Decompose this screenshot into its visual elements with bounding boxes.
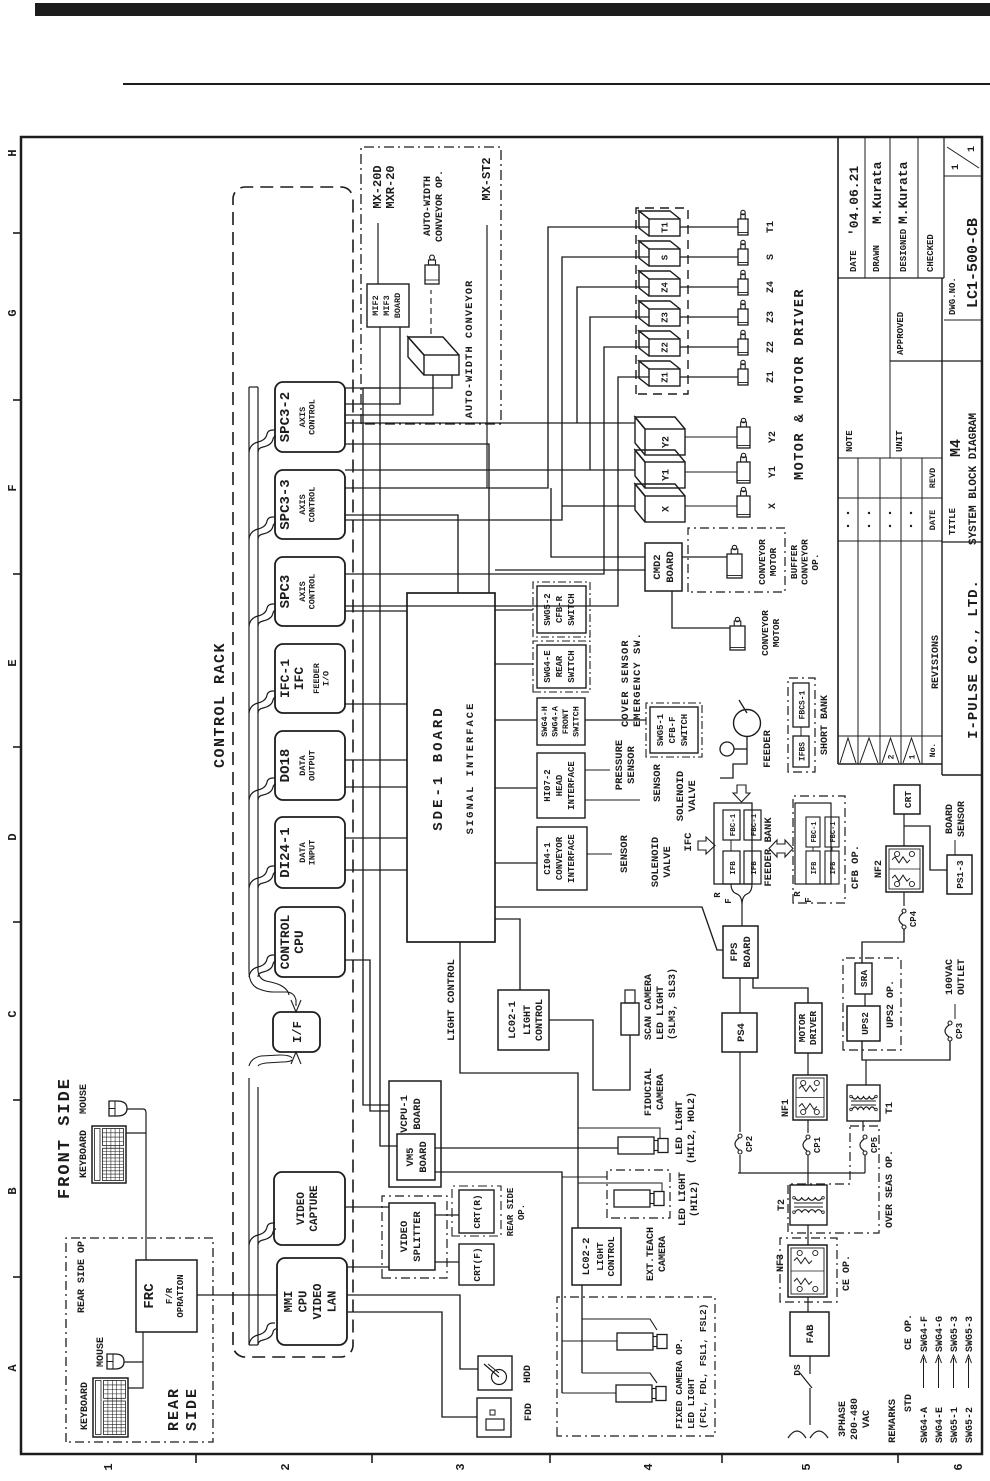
- wire DO18 to SDE-1: [345, 759, 407, 761]
- svg-text:INTERFACE: INTERFACE: [567, 834, 577, 883]
- svg-text:REAR: REAR: [555, 655, 565, 677]
- svg-text:AXIS: AXIS: [298, 407, 308, 427]
- wire SPC3-3 to SDE-1: [345, 515, 458, 593]
- wire NF2 to PS1-3: [904, 826, 947, 870]
- cfb links: [812, 847, 814, 851]
- wire FPS to motor driver: [753, 978, 808, 1003]
- svg-text:DO18: DO18: [278, 749, 294, 783]
- svg-text:CE OP.: CE OP.: [842, 1255, 853, 1291]
- svg-text:X: X: [662, 506, 673, 512]
- board DO18: [275, 731, 345, 800]
- ext teach boundary: [607, 1170, 670, 1218]
- motor Y2: [737, 427, 750, 448]
- svg-text:PS1-3: PS1-3: [955, 860, 966, 889]
- wire MMI to FDD: [347, 1312, 477, 1417]
- svg-text:1: 1: [951, 164, 962, 170]
- board VIDEO CAPTURE: [274, 1172, 345, 1245]
- svg-text:CPU: CPU: [292, 930, 307, 953]
- svg-text:FBC-1: FBC-1: [730, 813, 738, 836]
- wire UPS2 CP3 to T1: [862, 1041, 950, 1060]
- motor X: [737, 496, 750, 517]
- motor Z2: [738, 339, 748, 355]
- revision dots: [847, 525, 849, 527]
- svg-text:D: D: [6, 833, 20, 840]
- svg-text:LC02-1: LC02-1: [507, 1001, 519, 1039]
- svg-text:SENSOR: SENSOR: [652, 763, 664, 802]
- svg-text:BOARD: BOARD: [945, 804, 956, 834]
- svg-text:SWG4-A: SWG4-A: [551, 705, 561, 737]
- keyboard icon front: [92, 1126, 126, 1183]
- svg-text:SWG4-E: SWG4-E: [935, 1407, 946, 1443]
- svg-text:CONTROL: CONTROL: [308, 574, 318, 610]
- wire splitter to CRT F: [435, 1261, 459, 1263]
- camera fixed 2: [616, 1385, 652, 1402]
- svg-text:100VAC: 100VAC: [945, 959, 956, 995]
- svg-text:BOARD: BOARD: [742, 936, 754, 968]
- wire driver S to motor: [680, 256, 738, 258]
- svg-text:SWG5-1: SWG5-1: [656, 713, 666, 746]
- svg-text:OP.: OP.: [517, 1204, 527, 1220]
- wire DI24-1 to SDE-1: [345, 837, 407, 839]
- wire CP bus: [738, 1172, 865, 1174]
- svg-text:OUTPUT: OUTPUT: [308, 750, 318, 781]
- switch SWG4-E: [533, 641, 590, 692]
- wire driver T1 to motor: [680, 226, 738, 228]
- svg-text:SPC3-2: SPC3-2: [278, 392, 294, 442]
- svg-text:INPUT: INPUT: [308, 840, 318, 866]
- svg-text:VIDEO: VIDEO: [399, 1221, 411, 1253]
- svg-text:HI07-2: HI07-2: [543, 769, 553, 801]
- svg-text:REVISIONS: REVISIONS: [931, 635, 942, 689]
- 3phase arcs: [788, 1431, 806, 1438]
- svg-text:1: 1: [967, 146, 978, 152]
- svg-text:I/F: I/F: [291, 1021, 305, 1043]
- svg-text:SPC3-3: SPC3-3: [278, 479, 294, 529]
- wire CI04 stub: [587, 853, 612, 855]
- feeder bank outer: [714, 803, 752, 884]
- icon HDD: [478, 1356, 512, 1390]
- svg-text:S: S: [661, 254, 671, 260]
- wire driver Y2 to motor: [685, 436, 737, 438]
- board FRC: [136, 1260, 197, 1332]
- board CMD2: [645, 543, 682, 591]
- wire front switch to SWG5-1: [585, 719, 646, 721]
- board CRT(F): [459, 1244, 494, 1285]
- svg-text:LED LIGHT: LED LIGHT: [686, 1377, 697, 1429]
- svg-text:SWG5-3: SWG5-3: [950, 1316, 961, 1352]
- board PS4: [722, 1013, 757, 1052]
- feeder bank IFB F: [744, 851, 761, 884]
- wire driver Z3 to motor: [680, 316, 738, 318]
- svg-text:CONVEYOR: CONVEYOR: [555, 836, 565, 880]
- svg-text:SENSOR: SENSOR: [626, 745, 638, 784]
- svg-text:AXIS: AXIS: [298, 494, 308, 514]
- svg-text:UNIT: UNIT: [895, 430, 905, 452]
- svg-text:IFB: IFB: [830, 861, 838, 874]
- breaker CP5: [863, 1151, 867, 1155]
- wire video capture to splitter: [345, 1206, 389, 1208]
- svg-text:LIGHT: LIGHT: [523, 1005, 534, 1035]
- svg-text:SENSOR: SENSOR: [619, 834, 631, 873]
- svg-text:LED LIGHT: LED LIGHT: [656, 986, 667, 1040]
- svg-text:'04.06.21: '04.06.21: [847, 166, 862, 236]
- svg-text:REVD: REVD: [928, 468, 938, 488]
- grid ticks top: [13, 1276, 21, 1278]
- motor conveyor: [730, 626, 745, 650]
- wire CP4 to SRA: [862, 929, 904, 963]
- wire outlet to CP3: [954, 1004, 956, 1019]
- svg-text:CMD2: CMD2: [652, 554, 664, 579]
- board LC02-2: [572, 1228, 621, 1285]
- svg-text:Z3: Z3: [766, 311, 777, 323]
- wire SRA to UPS2: [864, 994, 866, 1006]
- wire fan X: [562, 505, 635, 507]
- svg-text:SDE-1 BOARD: SDE-1 BOARD: [431, 705, 447, 830]
- svg-text:INTERFACE: INTERFACE: [567, 761, 577, 810]
- board VIDEO SPLITTER: [389, 1203, 435, 1270]
- svg-text:BUFFER: BUFFER: [789, 545, 800, 580]
- scan artifact bar: [35, 3, 990, 16]
- svg-text:SWG5-2: SWG5-2: [543, 593, 553, 625]
- svg-text:DATE: DATE: [849, 250, 859, 272]
- svg-text:LC02-2: LC02-2: [581, 1238, 593, 1276]
- wire MMI to HDD: [347, 1295, 478, 1369]
- svg-text:Z1: Z1: [661, 372, 671, 383]
- svg-text:I-PULSE CO., LTD.: I-PULSE CO., LTD.: [966, 579, 982, 739]
- svg-text:DRIVER: DRIVER: [808, 1011, 819, 1046]
- transformer T2: [790, 1185, 827, 1225]
- wire lens tap 1: [582, 1319, 657, 1330]
- board MMI CPU VIDEO LAN: [277, 1258, 347, 1345]
- svg-text:REAR: REAR: [166, 1387, 183, 1431]
- board HI07-2: [537, 753, 585, 818]
- svg-text:REAR SIDE OP.: REAR SIDE OP.: [77, 1235, 88, 1313]
- svg-text:FDD: FDD: [524, 1403, 535, 1421]
- svg-text:REMARKS: REMARKS: [887, 1399, 899, 1443]
- svg-text:T1: T1: [661, 222, 671, 233]
- svg-text:MX-ST2: MX-ST2: [480, 157, 494, 200]
- feeder icon: [734, 710, 761, 737]
- motor driver group boundary: [636, 208, 688, 394]
- wire MIF2 to MX label: [377, 223, 379, 284]
- wire MD to NF1: [807, 1053, 809, 1075]
- svg-text:FRONT: FRONT: [561, 709, 571, 735]
- auto-width conveyor op boundary: [361, 147, 501, 424]
- svg-text:FRONT SIDE: FRONT SIDE: [56, 1077, 75, 1199]
- scan artifact line: [123, 83, 990, 85]
- wire SDE to FPS: [495, 907, 723, 950]
- svg-text:AUTO-WIDTH: AUTO-WIDTH: [423, 176, 434, 236]
- board IFC-1: [275, 644, 345, 713]
- svg-text:VIDEO: VIDEO: [311, 1283, 325, 1319]
- svg-text:PS4: PS4: [736, 1023, 748, 1042]
- cfb FBC-1 F: [825, 817, 839, 847]
- svg-text:2: 2: [888, 754, 897, 759]
- svg-text:BOARD: BOARD: [418, 1141, 430, 1173]
- board SPC3-3: [275, 470, 345, 539]
- svg-text:(HIL2, HOL2): (HIL2, HOL2): [686, 1092, 698, 1164]
- svg-text:FBC-1: FBC-1: [830, 821, 838, 842]
- svg-text:IFB: IFB: [751, 861, 759, 875]
- label sheet 1/1: [947, 147, 979, 168]
- svg-text:CAPTURE: CAPTURE: [309, 1185, 321, 1232]
- svg-text:VIDEO: VIDEO: [296, 1192, 308, 1225]
- keyboard icon rear: [93, 1378, 128, 1437]
- svg-text:Z3: Z3: [661, 312, 671, 323]
- svg-text:SWITCH: SWITCH: [680, 714, 690, 746]
- motor Z4: [738, 279, 748, 295]
- wire conveyor to long run: [363, 375, 452, 1105]
- svg-text:Y2: Y2: [768, 431, 779, 443]
- svg-text:VM5: VM5: [405, 1148, 417, 1167]
- motor Z3: [738, 309, 748, 325]
- svg-text:4: 4: [642, 1463, 656, 1470]
- svg-text:I/O: I/O: [322, 671, 332, 686]
- svg-text:Z2: Z2: [661, 342, 671, 353]
- svg-text:CFB-F: CFB-F: [668, 716, 678, 743]
- board SPC3-2: [275, 382, 345, 452]
- arrow IFC down: [698, 837, 715, 854]
- board UPS2: [847, 1006, 880, 1041]
- svg-text:R: R: [713, 892, 723, 898]
- ups2 op boundary: [843, 958, 901, 1050]
- driver box S: [649, 249, 680, 266]
- wire MIF2 long run to VM5: [345, 388, 397, 1146]
- wire fan Z2: [345, 347, 649, 574]
- fixed camera op boundary: [557, 1297, 715, 1436]
- wire ext led to trunk: [578, 1183, 662, 1191]
- svg-text:VAC: VAC: [862, 1410, 873, 1428]
- wire PS4 to CP2: [739, 1052, 741, 1132]
- svg-text:X: X: [768, 503, 779, 509]
- feeder bank FBC-1 R: [723, 810, 740, 840]
- board IFBS: [793, 736, 809, 767]
- wire driver X to motor: [685, 505, 737, 507]
- svg-text:F: F: [724, 898, 734, 903]
- svg-text:CONTROL RACK: CONTROL RACK: [212, 642, 229, 768]
- wire T2 to NF3: [807, 1225, 809, 1245]
- svg-text:2: 2: [279, 1463, 293, 1470]
- wire LC02-1 to scan camera led: [549, 1020, 630, 1090]
- svg-text:IFB: IFB: [811, 861, 819, 874]
- svg-text:F/R: F/R: [165, 1287, 175, 1304]
- svg-text:NF1: NF1: [781, 1099, 792, 1117]
- svg-text:IFBS: IFBS: [799, 742, 808, 761]
- svg-text:DS: DS: [792, 1364, 803, 1376]
- wire bus to T2: [807, 1173, 809, 1185]
- board CRT(R): [459, 1190, 494, 1233]
- short bank boundary: [788, 678, 815, 772]
- svg-text:LED LIGHT: LED LIGHT: [678, 1172, 689, 1226]
- wire NF1 to CP1: [807, 1120, 809, 1133]
- revision triangles: [840, 738, 856, 763]
- svg-text:OP.: OP.: [810, 553, 821, 570]
- svg-text:MOUSE: MOUSE: [96, 1337, 107, 1367]
- svg-text:DATA: DATA: [298, 754, 308, 775]
- svg-text:SPLITTER: SPLITTER: [412, 1211, 424, 1262]
- wire CPU to VCPU-1: [345, 960, 389, 1111]
- svg-text:MOTOR & MOTOR DRIVER: MOTOR & MOTOR DRIVER: [793, 288, 808, 480]
- motor S: [738, 249, 748, 265]
- wire fiducial led to trunk: [578, 1128, 660, 1139]
- wire FRC to MMI: [197, 1294, 277, 1296]
- board SDE-1: [407, 593, 495, 942]
- buffer conveyor boundary: [688, 528, 785, 592]
- feeder bank FBC-1 F: [744, 810, 761, 840]
- svg-text:CONVEYOR: CONVEYOR: [800, 539, 811, 585]
- svg-text:SWG4-F: SWG4-F: [920, 1316, 931, 1352]
- svg-text:KEYBOARD: KEYBOARD: [80, 1382, 91, 1430]
- breaker CP3: [948, 1037, 952, 1041]
- svg-text:CAMERA: CAMERA: [656, 1074, 667, 1110]
- camera fixed 1: [617, 1333, 653, 1350]
- svg-text:T2: T2: [777, 1199, 788, 1211]
- svg-text:LC1-500-CB: LC1-500-CB: [965, 218, 982, 308]
- svg-text:BOARD: BOARD: [393, 293, 403, 319]
- wire T1 to CP5: [862, 1121, 864, 1131]
- control rack boundary: [233, 187, 353, 1357]
- svg-text:(SLM3, SLS3): (SLM3, SLS3): [667, 968, 679, 1040]
- svg-text:CRT(R): CRT(R): [472, 1194, 483, 1228]
- label MX-ST2: [486, 225, 488, 488]
- conveyor 3d box: [424, 355, 459, 375]
- svg-text:SENSOR: SENSOR: [957, 801, 968, 837]
- svg-text:MOUSE: MOUSE: [79, 1084, 90, 1114]
- wire SDE to front switch: [495, 719, 537, 721]
- svg-text:DESIGNED: DESIGNED: [899, 228, 909, 272]
- svg-text:CPU: CPU: [297, 1291, 311, 1313]
- svg-text:IFC: IFC: [683, 832, 695, 852]
- svg-text:CI04-1: CI04-1: [543, 842, 553, 875]
- wire LC02-2 to fixed lens feed: [581, 1285, 583, 1373]
- ce op boundary: [780, 1238, 837, 1302]
- wire NF3 to FAB: [807, 1297, 809, 1312]
- cfb IFB F: [825, 851, 839, 884]
- title block: [942, 774, 982, 776]
- wire splitter to CRT R: [435, 1214, 459, 1216]
- svg-text:SWG5-1: SWG5-1: [950, 1407, 961, 1443]
- rear side op boundary: [66, 1238, 213, 1442]
- cfb op boundary: [793, 796, 845, 903]
- svg-text:CP4: CP4: [909, 910, 919, 927]
- board FAB: [790, 1312, 829, 1356]
- svg-text:MOTOR: MOTOR: [771, 618, 782, 647]
- svg-text:Z4: Z4: [661, 282, 671, 293]
- svg-text:SOLENOID: SOLENOID: [675, 771, 687, 821]
- svg-text:UPS2: UPS2: [860, 1012, 871, 1035]
- svg-text:DRAWN: DRAWN: [872, 245, 882, 272]
- bus wire lower: [248, 1078, 250, 1345]
- wire SPC3-2 to MIF2: [345, 327, 400, 404]
- svg-text:CE OP.: CE OP.: [904, 1314, 915, 1350]
- svg-text:NF2: NF2: [874, 860, 885, 878]
- svg-text:SIDE: SIDE: [184, 1387, 201, 1431]
- svg-text:Z2: Z2: [766, 341, 777, 353]
- svg-text:FEEDER: FEEDER: [762, 729, 774, 768]
- svg-text:IFC-1: IFC-1: [278, 659, 293, 698]
- svg-text:DI24-1: DI24-1: [278, 827, 294, 877]
- filter NF2: [886, 846, 923, 892]
- driver box Z2: [649, 339, 680, 356]
- svg-text:EMERGENCY SW.: EMERGENCY SW.: [632, 632, 644, 727]
- wire fan Z1: [345, 377, 649, 606]
- svg-text:STD: STD: [904, 1394, 915, 1412]
- svg-text:VCPU-1: VCPU-1: [399, 1095, 411, 1133]
- svg-text:G: G: [6, 309, 20, 316]
- svg-text:LIGHT CONTROL: LIGHT CONTROL: [446, 959, 458, 1041]
- svg-text:CRT: CRT: [903, 791, 914, 808]
- transformer T1: [847, 1085, 880, 1121]
- svg-text:5: 5: [800, 1463, 814, 1470]
- svg-text:M.Kurata: M.Kurata: [896, 161, 911, 224]
- cfb FBC-1 R: [806, 817, 820, 847]
- svg-text:LAN: LAN: [326, 1291, 340, 1313]
- cfb IFB R: [806, 851, 820, 884]
- svg-text:FBCS-1: FBCS-1: [799, 690, 808, 719]
- svg-text:SWITCH: SWITCH: [567, 650, 577, 682]
- board DI24-1: [275, 817, 345, 888]
- svg-text:DATA: DATA: [298, 841, 308, 862]
- svg-text:CHECKED: CHECKED: [926, 234, 936, 272]
- svg-text:OUTLET: OUTLET: [957, 959, 968, 995]
- driver box Z4: [649, 279, 680, 296]
- filter NF3: [788, 1245, 827, 1297]
- camera ext teach: [614, 1190, 650, 1207]
- motor Z1: [738, 369, 748, 385]
- wire SPC3-2 to conveyor: [345, 375, 433, 415]
- title cells: [838, 277, 944, 279]
- svg-text:CP2: CP2: [745, 1136, 755, 1152]
- arrow bank to cfb: [769, 840, 793, 857]
- wire body tap 2: [562, 1392, 616, 1394]
- svg-text:MOTOR: MOTOR: [768, 547, 779, 576]
- svg-text:(FCL, FDL, FSL1, FSL2): (FCL, FDL, FSL1, FSL2): [698, 1304, 709, 1429]
- svg-text:SPC3: SPC3: [278, 575, 294, 609]
- svg-text:(HIL2): (HIL2): [689, 1181, 701, 1217]
- board MIF2 MIF3: [367, 284, 409, 327]
- svg-text:No.: No.: [929, 743, 938, 757]
- wire SDE to SWG5-2: [495, 609, 533, 611]
- svg-text:T1: T1: [885, 1102, 896, 1114]
- driver box Y1: [645, 462, 685, 488]
- wire IFBS FBCS: [800, 727, 802, 736]
- svg-text:CAMERA: CAMERA: [658, 1236, 669, 1272]
- feeder bank brace: [731, 884, 752, 905]
- wire SPC3-2 to SDE-1: [345, 444, 489, 593]
- svg-text:NOTE: NOTE: [845, 430, 855, 452]
- svg-text:FIXED CAMERA OP.: FIXED CAMERA OP.: [674, 1338, 685, 1429]
- svg-text:E: E: [6, 659, 20, 666]
- dashed link: [430, 290, 432, 334]
- svg-text:CONTROL: CONTROL: [606, 1236, 617, 1276]
- svg-text:IFB: IFB: [730, 861, 738, 875]
- driver box Z3: [649, 309, 680, 326]
- svg-text:AXIS: AXIS: [298, 581, 308, 601]
- svg-text:LED LIGHT: LED LIGHT: [675, 1101, 686, 1155]
- svg-text:1: 1: [909, 754, 918, 759]
- svg-text:H: H: [6, 149, 20, 156]
- switch SWG5-1: [646, 703, 702, 757]
- icon FDD: [477, 1398, 511, 1437]
- wire FPS to PS4: [739, 978, 741, 1013]
- wire driver Z1 to motor: [680, 376, 738, 378]
- svg-text:NF3: NF3: [776, 1254, 787, 1272]
- svg-text:200-480: 200-480: [850, 1398, 861, 1440]
- svg-text:TITLE: TITLE: [948, 507, 958, 535]
- svg-text:CP1: CP1: [813, 1136, 823, 1153]
- filter NF1: [793, 1075, 827, 1120]
- grid ticks left: [195, 1454, 197, 1463]
